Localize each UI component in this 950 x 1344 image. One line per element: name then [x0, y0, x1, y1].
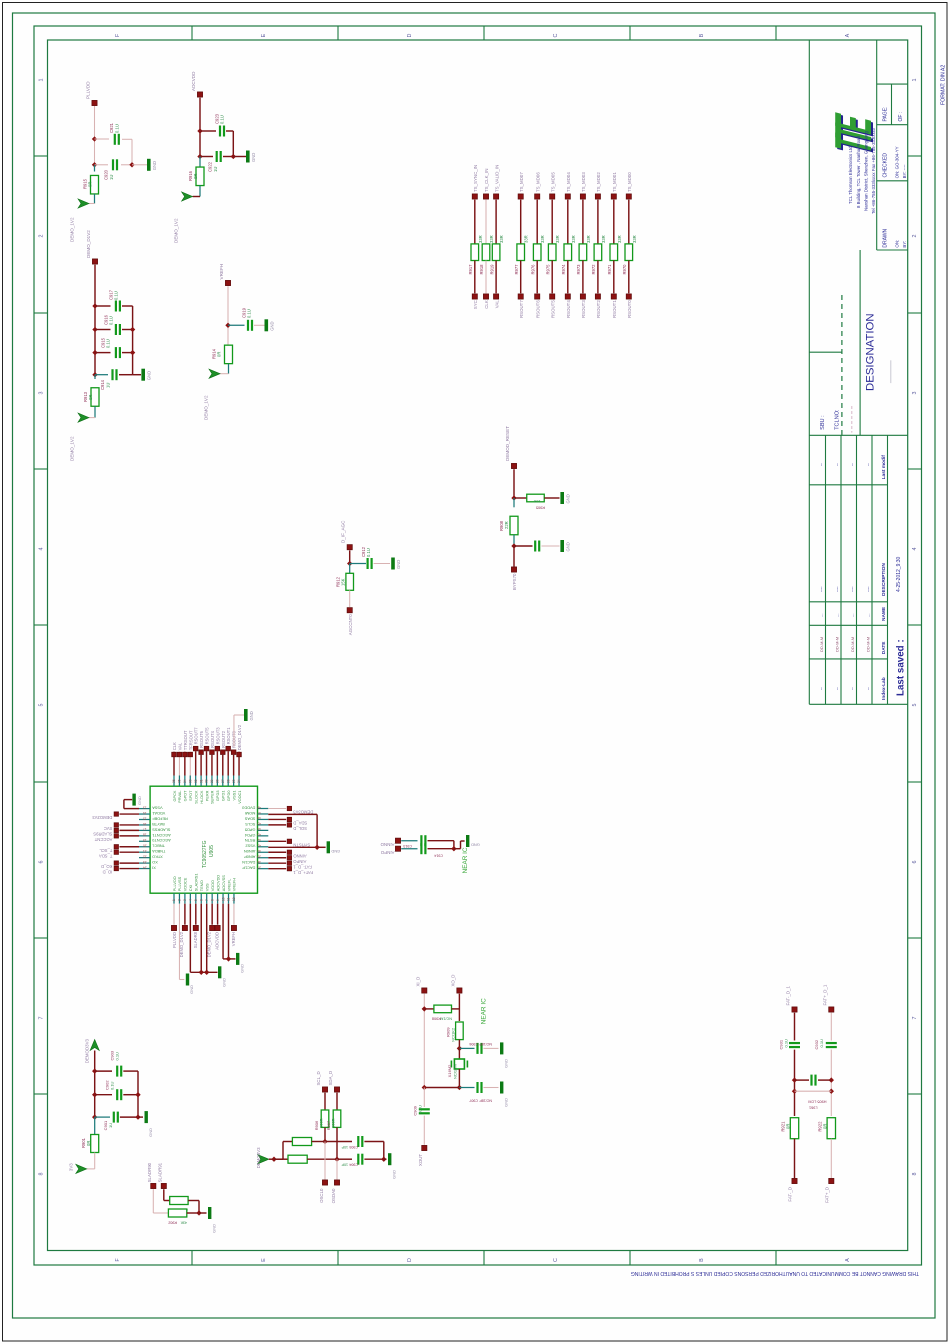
wire: [189, 752, 191, 776]
pin 33 top: [189, 776, 191, 787]
node TS_SYNC_IN: [472, 194, 477, 199]
junction: [92, 350, 97, 355]
svg-text:DEMO_1V2: DEMO_1V2: [174, 218, 179, 243]
wire: [325, 1141, 352, 1143]
svg-text:TS_MD00: TS_MD00: [627, 172, 632, 192]
node RSOUT7: [193, 746, 198, 751]
svg-text:GPCK: GPCK: [172, 790, 177, 801]
wire: [349, 550, 351, 563]
node SYC: [472, 294, 477, 299]
svg-text:VSS2: VSS2: [245, 844, 255, 849]
wire: [458, 1040, 460, 1049]
svg-text:X16M2: X16M2: [447, 1064, 452, 1077]
svg-text:4: 4: [39, 548, 45, 551]
node FAT-_D: [792, 1178, 797, 1183]
svg-text:GND: GND: [391, 1170, 396, 1179]
wire: [336, 1127, 338, 1159]
wire: [95, 305, 111, 307]
resistor R910: [292, 1138, 311, 1146]
svg-text:AIN0N: AIN0N: [244, 849, 256, 854]
wire: [268, 824, 286, 826]
ground: [327, 841, 330, 853]
svg-text:AINNO: AINNO: [293, 853, 307, 858]
svg-text:NC/16M: NC/16M: [453, 1064, 458, 1079]
wire: [350, 563, 366, 565]
svg-text:GPD1: GPD1: [221, 791, 226, 802]
ground: [246, 151, 250, 163]
node ADCVDD: [197, 92, 202, 97]
svg-text:GND: GND: [270, 321, 275, 330]
svg-text:GND: GND: [221, 978, 226, 987]
pin 6 bottom: [200, 893, 202, 904]
svg-text:2: 2: [912, 235, 918, 238]
svg-text:2: 2: [39, 235, 45, 238]
wire: [336, 1093, 338, 1110]
svg-text:GND: GND: [471, 842, 480, 847]
svg-text:XTKO: XTKO: [152, 855, 163, 860]
capacitor C908: [535, 541, 539, 552]
svg-text:VDDO: VDDO: [210, 880, 215, 891]
svg-text:Nanshan District, Shenzhen, Gu: Nanshan District, Shenzhen, Guangdong: [863, 131, 868, 211]
svg-text:DVDD3: DVDD3: [242, 805, 255, 810]
capacitor C902: [117, 1089, 121, 1100]
wire: [274, 1158, 288, 1160]
wire: [199, 186, 201, 197]
pin 8 bottom: [211, 893, 213, 904]
wire: [268, 868, 286, 870]
wire: [567, 261, 569, 294]
capacitor C933: [812, 1075, 816, 1086]
resistor R902: [168, 1209, 186, 1217]
node RSOUT3: [580, 294, 585, 299]
svg-text:VSS: VSS: [205, 883, 210, 891]
wire: [222, 755, 224, 776]
resistor R972: [594, 244, 602, 261]
node FAT-_D_1: [287, 861, 291, 865]
junction: [199, 970, 204, 975]
pin 30 top: [206, 776, 208, 787]
node CLK: [172, 752, 177, 757]
svg-text:E: E: [261, 1258, 267, 1262]
svg-text:Last saved :: Last saved :: [896, 639, 907, 696]
svg-text:5: 5: [194, 899, 198, 901]
svg-text:8: 8: [210, 899, 214, 901]
svg-text:XOUT: XOUT: [418, 1154, 423, 1167]
junction: [457, 1046, 462, 1051]
ground: [186, 974, 189, 986]
svg-text:VDDCE: VDDCE: [183, 877, 188, 891]
resistor R909: [456, 1022, 464, 1040]
wire: [542, 545, 560, 547]
svg-text:R971: R971: [607, 264, 612, 275]
svg-text:ADCVSS: ADCVSS: [221, 875, 226, 891]
wire: [173, 904, 175, 925]
svg-text:GND: GND: [146, 371, 151, 380]
node TS_MD07: [518, 194, 523, 199]
wire: [95, 329, 111, 331]
ground: [244, 709, 248, 721]
capacitor C931: [789, 1043, 800, 1047]
svg-text:31: 31: [199, 779, 203, 783]
svg-text:GND: GND: [137, 796, 142, 805]
svg-text:13: 13: [143, 805, 147, 809]
svg-text:5: 5: [39, 704, 45, 707]
svg-text:FAT+_D_1: FAT+_D_1: [293, 870, 313, 875]
svg-text:8: 8: [39, 1173, 45, 1176]
node SLADR90: [151, 1183, 156, 1188]
resistor R915: [91, 175, 99, 194]
wire: [200, 755, 202, 776]
junction: [129, 162, 134, 167]
svg-text:Index-Lab: Index-Lab: [881, 677, 887, 700]
pin 14 left: [139, 813, 150, 815]
wire: [233, 156, 246, 158]
wire: [384, 1158, 387, 1160]
svg-text:15K: 15K: [341, 578, 346, 586]
node DEMOD_RESET: [511, 463, 516, 468]
svg-text:DAC1P: DAC1P: [242, 866, 255, 871]
svg-text:OSCL0: OSCL0: [319, 1188, 324, 1203]
pin 26 top: [227, 776, 229, 787]
svg-text:33R: 33R: [617, 235, 622, 243]
wire: [613, 200, 615, 244]
wire: [216, 751, 218, 775]
node SDA_D: [287, 817, 291, 821]
junction: [829, 1077, 834, 1082]
svg-text:TS_SYNC_IN: TS_SYNC_IN: [473, 165, 478, 192]
wire: [830, 1050, 832, 1116]
svg-text:FAT-_D: FAT-_D: [788, 1187, 793, 1202]
svg-text:R972: R972: [591, 264, 596, 275]
pin 45 right: [258, 824, 269, 826]
svg-text:VAL: VAL: [177, 742, 182, 750]
svg-text:29: 29: [210, 779, 214, 783]
ground: [218, 966, 221, 978]
node AINNO: [287, 850, 291, 854]
svg-text:48: 48: [257, 805, 261, 809]
supply DEMO_1V2: [182, 192, 193, 201]
svg-text:SLADR8: SLADR8: [193, 931, 198, 948]
svg-text:0.1U: 0.1U: [783, 1039, 788, 1048]
svg-text:THIS DRAWING CANNOT BE COMMUNI: THIS DRAWING CANNOT BE COMMUNICATED TO U…: [631, 1270, 919, 1276]
resistor R921: [790, 1118, 798, 1139]
wire: [122, 305, 133, 307]
svg-text:10P: 10P: [341, 1145, 348, 1149]
svg-text:DD-M-M: DD-M-M: [819, 637, 824, 652]
svg-text:HLDCK: HLDCK: [199, 790, 204, 804]
svg-text:SLADRS1: SLADRS1: [194, 873, 199, 891]
junction: [92, 1068, 97, 1073]
svg-text:9: 9: [216, 899, 220, 901]
resistor R914: [225, 345, 233, 364]
svg-text:SLADR9S: SLADR9S: [93, 832, 112, 837]
wire: [830, 1139, 832, 1178]
svg-text:NAME: NAME: [881, 606, 887, 621]
node AINPO: [287, 856, 291, 860]
svg-text:PAGE:: PAGE:: [883, 107, 889, 122]
ground: [208, 1207, 211, 1219]
resistor R908b: [434, 1005, 452, 1013]
node XI_D: [422, 988, 427, 993]
wire: [374, 563, 390, 565]
wire: [544, 497, 559, 499]
wire: [200, 130, 216, 132]
node T_SCL: [114, 845, 118, 849]
pin 21 left: [139, 851, 150, 853]
node RSOUT5: [550, 294, 555, 299]
wire: [459, 1087, 474, 1089]
junction: [92, 372, 97, 377]
wire: [120, 824, 140, 826]
pin 44 right: [258, 829, 269, 831]
svg-text:TC90527FG: TC90527FG: [202, 840, 208, 868]
svg-text:3V3: 3V3: [69, 1163, 74, 1171]
node AGCCNT: [114, 834, 118, 838]
svg-text:0R: 0R: [88, 182, 93, 187]
svg-text:D: D: [407, 33, 413, 37]
node OSDA0: [334, 1180, 339, 1185]
wire: [484, 1047, 499, 1049]
svg-text:R977: R977: [514, 264, 519, 275]
wire: [211, 755, 213, 776]
wire: [228, 364, 230, 374]
node BYPS70: [511, 567, 516, 572]
svg-text:0.1U: 0.1U: [115, 1052, 120, 1061]
svg-text:L961: L961: [809, 1106, 817, 1110]
node XOUT: [422, 1145, 427, 1150]
capacitor C914: [421, 843, 425, 854]
svg-text:RSOUT7: RSOUT7: [194, 727, 199, 745]
junction: [92, 1092, 97, 1097]
pin 2 bottom: [178, 893, 180, 904]
wire: [206, 904, 208, 973]
svg-text:GPD3: GPD3: [215, 791, 220, 802]
svg-text:R973: R973: [576, 264, 581, 275]
junction: [322, 1139, 327, 1144]
wire: [513, 546, 515, 567]
junction: [511, 543, 516, 548]
svg-text:RSOUT4: RSOUT4: [210, 730, 215, 748]
supply DEMO_1V2: [209, 369, 220, 378]
svg-text:6: 6: [39, 861, 45, 864]
svg-text:SLADR91: SLADR91: [157, 1162, 162, 1182]
pin 29 top: [211, 776, 213, 787]
node SDA_D: [334, 1087, 339, 1092]
svg-text:5: 5: [912, 704, 918, 707]
pin 46 right: [258, 818, 269, 820]
node SYRSTN: [287, 839, 291, 843]
pin 41 right: [258, 846, 269, 848]
resistor R912: [346, 573, 354, 590]
capacitor C917: [116, 301, 120, 312]
wire: [222, 904, 224, 959]
wire: [120, 813, 140, 815]
wire: [120, 829, 140, 831]
junction: [92, 1114, 97, 1119]
pin 37 right: [258, 868, 269, 870]
svg-text:23: 23: [143, 860, 147, 864]
wire: [95, 1070, 112, 1072]
svg-text:10P: 10P: [341, 1163, 348, 1167]
svg-text:C920: C920: [104, 169, 109, 180]
svg-text:R974: R974: [561, 264, 566, 275]
svg-text:GND: GND: [249, 711, 254, 720]
svg-text:R919: R919: [489, 264, 494, 275]
svg-text:42: 42: [257, 838, 261, 842]
node TFRSOUT: [188, 752, 193, 757]
wire: [349, 564, 351, 574]
wire: [513, 469, 515, 498]
capacitor C921: [115, 134, 119, 145]
svg-text:XO: XO: [152, 860, 158, 865]
pin 40 right: [258, 851, 269, 853]
capacitor C916: [116, 324, 120, 335]
junction: [347, 561, 352, 566]
resistor R901: [91, 1135, 99, 1153]
wire: [268, 846, 317, 848]
pin 23 left: [139, 862, 150, 864]
wire: [452, 1008, 460, 1010]
wire: [206, 751, 208, 775]
wire: [199, 157, 201, 168]
wire: [474, 261, 476, 294]
svg-text:C912: C912: [361, 546, 366, 557]
node RSOUT1: [611, 294, 616, 299]
svg-text:TTRSOUT: TTRSOUT: [183, 730, 188, 750]
ground: [560, 492, 564, 504]
svg-text:D: D: [407, 1258, 413, 1262]
wire: [794, 1050, 796, 1116]
svg-text:TCLNO:: TCLNO:: [835, 409, 841, 430]
svg-text:TS_CLK_IN: TS_CLK_IN: [484, 169, 489, 192]
junction: [196, 1210, 201, 1215]
svg-text:TS_MD03: TS_MD03: [581, 172, 586, 192]
title dashed separator: [841, 295, 843, 435]
supply DEMO3V3: [258, 1155, 269, 1164]
svg-text:C: C: [553, 33, 559, 37]
svg-text:DEMO_D1V2: DEMO_D1V2: [86, 230, 91, 258]
svg-text:GND: GND: [565, 542, 570, 551]
svg-text:15: 15: [143, 816, 147, 820]
junction: [334, 1157, 339, 1162]
wire: [628, 200, 630, 244]
wire: [268, 851, 286, 853]
junction: [314, 845, 319, 850]
svg-text:0.1U: 0.1U: [819, 1039, 824, 1048]
svg-text:SLOCK: SLOCK: [193, 790, 198, 804]
svg-text:1: 1: [39, 79, 45, 82]
node KO_D: [114, 861, 118, 865]
svg-text:CHECKED: CHECKED: [883, 153, 889, 178]
node DEMO_D1V2: [210, 925, 215, 930]
wire: [458, 1048, 460, 1058]
svg-text:GND: GND: [211, 1224, 216, 1233]
wire: [317, 846, 326, 848]
node AINPO: [395, 846, 400, 851]
svg-text:0.1U: 0.1U: [418, 1105, 423, 1114]
svg-text:38: 38: [257, 860, 261, 864]
capacitor C914: [113, 369, 117, 380]
svg-text:41: 41: [257, 844, 261, 848]
svg-text:4: 4: [912, 548, 918, 551]
resistor R916: [196, 167, 204, 186]
pin 19 left: [139, 840, 150, 842]
svg-text:RSOUT2: RSOUT2: [221, 730, 226, 748]
svg-text:21: 21: [143, 849, 147, 853]
wire: [163, 1189, 165, 1200]
wire: [424, 1087, 459, 1089]
svg-text:DD-M-M: DD-M-M: [834, 637, 839, 652]
svg-text:BY:: BY:: [902, 241, 907, 248]
svg-text:RSOUT6: RSOUT6: [199, 730, 204, 748]
svg-text:R905: R905: [536, 506, 545, 510]
svg-text:RSOUT0: RSOUT0: [627, 300, 632, 318]
wire: [233, 755, 235, 776]
node TTRSOUT: [183, 752, 188, 757]
pin 42 right: [258, 840, 269, 842]
pin 15 left: [139, 819, 150, 821]
pin 12 bottom: [233, 893, 235, 904]
svg-text:SCLS: SCLS: [245, 822, 256, 827]
svg-text:VREFH: VREFH: [232, 878, 237, 891]
svg-text:1U: 1U: [213, 167, 218, 172]
resistor R971: [610, 244, 618, 261]
svg-text:DRAWN: DRAWN: [883, 229, 889, 248]
node DEMO3V3: [114, 812, 118, 816]
svg-text:C914: C914: [434, 854, 443, 858]
svg-text:DESCRIPTION: DESCRIPTION: [881, 563, 887, 596]
wire: [120, 835, 140, 837]
wire: [119, 374, 133, 376]
svg-text:44: 44: [257, 827, 261, 831]
svg-text:GPDT: GPDT: [183, 790, 188, 801]
pin 27 top: [222, 776, 224, 787]
wire: [121, 164, 132, 166]
op-amp U905 TC90527FG: [150, 786, 257, 893]
svg-text:VSS1: VSS1: [231, 791, 236, 801]
pin 3 bottom: [184, 893, 186, 904]
svg-text:NEAR IC: NEAR IC: [462, 847, 469, 873]
wire: [200, 904, 202, 973]
capacitor C903: [117, 1066, 121, 1077]
svg-text:GND: GND: [396, 560, 401, 569]
resistor R906: [321, 1110, 329, 1127]
svg-text:0.1U: 0.1U: [114, 291, 119, 300]
wire: [424, 1008, 433, 1010]
wire: [423, 994, 425, 1088]
pin 9 bottom: [217, 893, 219, 904]
svg-text:GND: GND: [152, 161, 157, 170]
node FAT+_D_1: [829, 1007, 834, 1012]
capacitor C906: [478, 1043, 482, 1054]
svg-text:33R: 33R: [489, 235, 494, 243]
capacitor C932: [826, 1043, 837, 1047]
node DEMO_D1V2: [182, 925, 187, 930]
svg-text:DEMO_1V2: DEMO_1V2: [70, 436, 75, 461]
resistor R977: [517, 244, 525, 261]
pin 38 right: [258, 862, 269, 864]
node SOL_D: [287, 823, 291, 827]
wire: [94, 106, 96, 164]
svg-text:VDDA1: VDDA1: [152, 811, 165, 816]
svg-text:R902: R902: [168, 1221, 177, 1225]
node RSOUT5: [204, 746, 209, 751]
junction: [422, 1006, 427, 1011]
wire: [454, 848, 461, 850]
svg-text:10: 10: [221, 897, 225, 901]
wire: [485, 200, 487, 244]
wire: [324, 1093, 326, 1110]
